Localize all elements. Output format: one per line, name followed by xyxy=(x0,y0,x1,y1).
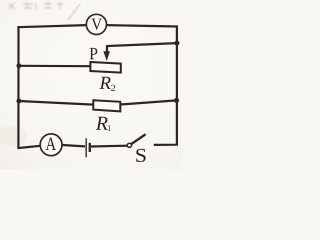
label R2 subscript 2 xyxy=(111,85,115,91)
voltmeter letter V xyxy=(91,19,102,30)
junction node left rail / rheostat rail xyxy=(16,63,21,68)
ghost print-through marks top-left (decorative) xyxy=(9,1,80,20)
wire: rheostat R2 left rail xyxy=(19,65,91,68)
resistor R1 body xyxy=(93,100,120,111)
wire: bottom rail from left corner to ammeter xyxy=(17,146,40,148)
battery short plate xyxy=(89,143,91,152)
wire: left vertical rail xyxy=(17,26,19,148)
ammeter A circle xyxy=(40,134,62,156)
battery long plate xyxy=(85,138,87,157)
label R1 subscript 1 xyxy=(108,125,111,131)
wire: wiper rail from potentiometer arrow to right rail xyxy=(107,43,177,53)
ghost smudge bottom-left (decorative) xyxy=(0,126,27,146)
wire: resistor R1 left rail xyxy=(19,101,94,105)
rheostat R2 body xyxy=(90,62,120,73)
label R1 italic R xyxy=(96,117,108,130)
label R2 italic R xyxy=(99,77,110,89)
wire: top rail right + right vertical rail + switch fixed-contact wire xyxy=(106,25,176,145)
paper background xyxy=(0,0,183,169)
voltmeter V circle xyxy=(86,14,106,34)
wire: resistor R1 right rail xyxy=(120,100,176,104)
switch S lever xyxy=(131,134,145,144)
wire: ammeter to battery xyxy=(62,145,85,146)
junction node right rail / R1 rail xyxy=(174,98,179,103)
label P xyxy=(90,48,98,59)
junction node left rail / R1 rail xyxy=(16,99,21,104)
wire: battery to switch pivot xyxy=(91,145,128,148)
switch S pivot circle xyxy=(127,143,131,147)
label S xyxy=(136,149,145,162)
ammeter letter A xyxy=(46,138,56,150)
junction node right rail / wiper rail xyxy=(174,41,179,46)
potentiometer P wiper arrowhead xyxy=(103,51,110,61)
wire: top rail, left segment xyxy=(17,25,86,27)
